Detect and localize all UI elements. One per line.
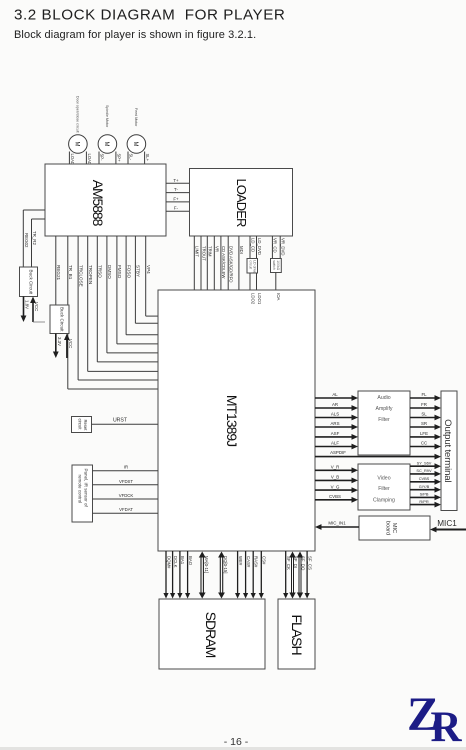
svg-text:Panel, IR sensor of: Panel, IR sensor of: [83, 469, 88, 508]
svg-text:LDO1: LDO1: [257, 293, 262, 305]
svg-text:3.2 BLOCK DIAGRAM FOR PLAYER: 3.2 BLOCK DIAGRAM FOR PLAYER: [14, 7, 285, 24]
svg-text:TROUT: TROUT: [201, 246, 206, 261]
svg-text:LIMIT: LIMIT: [195, 246, 200, 257]
svg-text:CD ASK/CDLEW: CD ASK/CDLEW: [221, 246, 226, 279]
svg-text:Feed Motor: Feed Motor: [134, 108, 138, 127]
svg-text:VR: VR: [215, 246, 220, 252]
svg-text:TRSO: TRSO: [98, 265, 103, 278]
svg-text:VCC: VCC: [68, 339, 73, 348]
svg-text:Reset: Reset: [83, 420, 88, 432]
svg-text:FLASH: FLASH: [289, 614, 305, 654]
svg-text:IOA: IOA: [276, 293, 281, 301]
svg-text:MDI: MDI: [239, 246, 244, 254]
svg-text:RAS#: RAS#: [254, 556, 259, 568]
svg-text:SF_CK: SF_CK: [286, 556, 291, 570]
svg-text:VCC: VCC: [34, 302, 39, 311]
svg-text:REG02: REG02: [24, 233, 29, 248]
svg-text:SF_DI: SF_DI: [293, 556, 298, 568]
svg-text:R/PR: R/PR: [419, 499, 428, 504]
svg-text:CS#: CS#: [262, 556, 267, 565]
svg-text:Buck Circuit: Buck Circuit: [60, 307, 65, 332]
svg-text:SL-: SL-: [129, 154, 134, 161]
svg-text:URST: URST: [113, 417, 128, 423]
svg-text:Filter: Filter: [378, 486, 390, 492]
svg-text:FR: FR: [421, 402, 427, 407]
svg-text:TROPEN: TROPEN: [88, 265, 93, 284]
svg-text:CAS#: CAS#: [246, 556, 251, 568]
svg-text:TR_R2: TR_R2: [32, 231, 37, 245]
svg-text:MIC1: MIC1: [437, 519, 457, 528]
svg-text:Buck Circuit: Buck Circuit: [29, 270, 34, 295]
svg-text:MIC_IN1: MIC_IN1: [328, 521, 346, 526]
svg-text:SP-: SP-: [100, 154, 105, 162]
svg-text:G/Y/B: G/Y/B: [419, 484, 430, 489]
svg-text:SR: SR: [421, 421, 427, 426]
svg-text:T-: T-: [174, 187, 178, 192]
svg-text:SY_S6V: SY_S6V: [417, 460, 432, 465]
svg-text:LFE: LFE: [420, 431, 428, 436]
svg-text:Clamping: Clamping: [373, 498, 395, 504]
svg-text:TRCLOSE: TRCLOSE: [78, 265, 83, 287]
svg-text:VR_DVD: VR_DVD: [281, 238, 286, 255]
svg-text:DQM#: DQM#: [166, 556, 171, 569]
svg-text:1.8V: 1.8V: [25, 300, 30, 309]
svg-text:V_R: V_R: [331, 465, 340, 470]
svg-text:M: M: [74, 142, 80, 147]
svg-text:board: board: [385, 521, 391, 535]
svg-text:V_G: V_G: [331, 484, 340, 489]
svg-text:F-: F-: [174, 206, 179, 211]
svg-text:IR: IR: [124, 465, 128, 470]
svg-text:- 16 -: - 16 -: [224, 736, 249, 748]
svg-text:DVD ASK/GD/RFO: DVD ASK/GD/RFO: [229, 246, 234, 283]
svg-text:LOADER: LOADER: [234, 178, 249, 227]
svg-text:circuit: circuit: [248, 260, 252, 269]
svg-text:AL: AL: [332, 392, 338, 397]
svg-text:CC: CC: [421, 441, 427, 446]
svg-text:WE#: WE#: [238, 556, 243, 566]
svg-text:FMSO: FMSO: [117, 265, 122, 279]
svg-text:M: M: [132, 142, 138, 147]
svg-text:Audio: Audio: [377, 395, 390, 401]
svg-text:LD_CD: LD_CD: [250, 238, 255, 252]
svg-text:ARS: ARS: [330, 421, 339, 426]
svg-text:BAO: BAO: [188, 556, 193, 566]
svg-text:circuit: circuit: [78, 419, 83, 431]
svg-text:MIC: MIC: [391, 523, 397, 533]
svg-text:FOSO: FOSO: [126, 265, 131, 278]
svg-text:SL+: SL+: [145, 154, 150, 162]
svg-text:CVBS: CVBS: [419, 476, 430, 481]
svg-text:Video: Video: [377, 476, 390, 482]
svg-text:REG21: REG21: [56, 265, 61, 281]
svg-text:R: R: [431, 704, 463, 750]
svg-text:M: M: [103, 142, 109, 147]
svg-text:VP4: VP4: [146, 265, 151, 274]
svg-text:SDRAM: SDRAM: [203, 612, 219, 658]
svg-text:SF_DO: SF_DO: [300, 556, 305, 571]
svg-text:Amplify: Amplify: [375, 406, 392, 412]
svg-text:SL: SL: [421, 412, 427, 417]
svg-text:MT1389J: MT1389J: [224, 395, 240, 446]
svg-text:VFDCK: VFDCK: [119, 493, 134, 498]
svg-text:3.3V: 3.3V: [57, 337, 62, 346]
svg-text:Door open/close circuit: Door open/close circuit: [75, 96, 79, 133]
svg-text:Output terminal: Output terminal: [442, 419, 453, 482]
svg-text:CVBS: CVBS: [329, 494, 341, 499]
svg-text:S/PB: S/PB: [420, 492, 429, 497]
svg-text:AM5888: AM5888: [90, 180, 106, 227]
svg-text:ASF: ASF: [331, 431, 340, 436]
svg-text:AR: AR: [332, 402, 338, 407]
svg-text:F+: F+: [173, 196, 179, 201]
svg-text:TRIM: TRIM: [208, 246, 213, 257]
svg-text:STBY: STBY: [136, 265, 141, 277]
svg-text:ASPDIF: ASPDIF: [330, 450, 346, 455]
svg-text:SP+: SP+: [116, 154, 121, 163]
svg-text:remote control: remote control: [77, 475, 82, 504]
svg-text:DCLK: DCLK: [173, 556, 178, 568]
svg-text:VFDAT: VFDAT: [119, 507, 133, 512]
svg-text:V_B: V_B: [331, 475, 339, 480]
svg-text:SF_CS: SF_CS: [307, 556, 312, 570]
svg-text:Filter: Filter: [378, 417, 390, 423]
svg-text:MA[0-11]: MA[0-11]: [204, 556, 209, 573]
svg-text:Spindle Motor: Spindle Motor: [105, 105, 109, 128]
svg-text:LD_DVD: LD_DVD: [257, 238, 262, 255]
svg-text:DQ[0-15]: DQ[0-15]: [223, 556, 228, 573]
svg-text:BA1: BA1: [180, 556, 185, 565]
svg-text:ALS: ALS: [331, 412, 339, 417]
svg-text:switch: switch: [272, 260, 276, 270]
svg-text:Block diagram for player is sh: Block diagram for player is shown in fig…: [14, 29, 256, 41]
svg-text:T+: T+: [173, 178, 179, 183]
svg-text:DMSO: DMSO: [107, 265, 112, 279]
svg-text:FL: FL: [421, 392, 427, 397]
svg-text:LDO2: LDO2: [250, 293, 255, 305]
svg-text:ALF: ALF: [331, 441, 339, 446]
svg-text:SC_R9V: SC_R9V: [416, 468, 432, 473]
svg-text:VFDST: VFDST: [119, 479, 133, 484]
svg-text:TR_B1: TR_B1: [68, 265, 73, 280]
svg-text:VR_CD: VR_CD: [273, 238, 278, 253]
